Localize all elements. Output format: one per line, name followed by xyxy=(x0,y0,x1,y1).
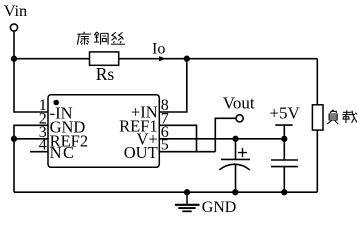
wire pin3 REF2 to left vertical xyxy=(14,138,48,140)
wire C1 top lead xyxy=(235,139,237,160)
node C1 V+ junction xyxy=(232,136,238,142)
svg-text:+5V: +5V xyxy=(269,104,300,123)
wire load top lead xyxy=(316,59,318,105)
arrow Io current direction xyxy=(159,56,166,61)
wire pin5 OUT xyxy=(159,151,215,153)
terminal Vin xyxy=(10,24,17,31)
svg-text:GND: GND xyxy=(202,199,237,216)
label fu-zai (load) hand-drawn glyphs xyxy=(327,110,357,124)
wire pin6 V+ rail xyxy=(159,138,284,140)
node REF2 junction xyxy=(11,136,17,142)
capacitor C1 plus sign xyxy=(238,148,247,157)
glyph zai xyxy=(342,110,357,123)
wire pin2 GND left and down to ground bus xyxy=(14,125,48,192)
node Vin junction xyxy=(11,56,17,62)
svg-text:OUT: OUT xyxy=(124,143,158,162)
ground symbol xyxy=(175,192,200,211)
glyph tong xyxy=(94,32,108,45)
wire C1 bottom lead xyxy=(235,164,237,192)
node ground bus junction xyxy=(184,189,190,195)
node C1 bus junction xyxy=(232,189,238,195)
wire C2 top lead xyxy=(283,139,285,160)
glyph si xyxy=(111,32,125,44)
svg-text:5: 5 xyxy=(161,137,169,154)
terminal Vout xyxy=(236,115,243,122)
wire pin7 REF1 down to OUT xyxy=(159,125,196,151)
wire Vout riser xyxy=(215,118,236,151)
wire pin8 +IN up to top rail xyxy=(159,59,187,112)
capacitor C2 plates xyxy=(271,160,298,167)
svg-text:Vin: Vin xyxy=(4,1,27,20)
power +5V T-bar xyxy=(275,124,292,126)
svg-text:Vout: Vout xyxy=(223,94,255,113)
capacitor C1 electrolytic curved plate xyxy=(219,164,250,170)
resistor load box xyxy=(312,105,323,130)
node +5V junction xyxy=(281,136,287,142)
capacitor C1 electrolytic top plate xyxy=(221,158,250,160)
pin 1 indicator dot xyxy=(53,100,59,106)
glyph kang xyxy=(77,32,91,45)
wire ground bus xyxy=(14,191,317,193)
wire pin4 NC stub xyxy=(30,151,48,153)
op-amp U1 INA current sense amplifier body xyxy=(48,95,159,168)
wire Vin node down to pin1 -IN xyxy=(14,59,48,112)
wire Vin terminal drop xyxy=(13,31,15,59)
wire top rail Vin node to load xyxy=(14,58,317,60)
svg-text:4: 4 xyxy=(39,137,47,154)
resistor Rs xyxy=(90,52,119,65)
node Io junction xyxy=(184,56,190,62)
wire +5V stem xyxy=(283,125,285,139)
label kang-tong-si (constantan wire) hand-drawn glyphs xyxy=(77,32,125,45)
svg-text:NC: NC xyxy=(50,143,76,162)
wire C2 bottom lead xyxy=(283,167,285,193)
svg-text:Io: Io xyxy=(152,41,165,58)
svg-text:Rs: Rs xyxy=(96,64,115,84)
wire load bottom lead xyxy=(316,130,318,192)
node C2 bus junction xyxy=(281,189,287,195)
glyph fu xyxy=(327,110,338,124)
